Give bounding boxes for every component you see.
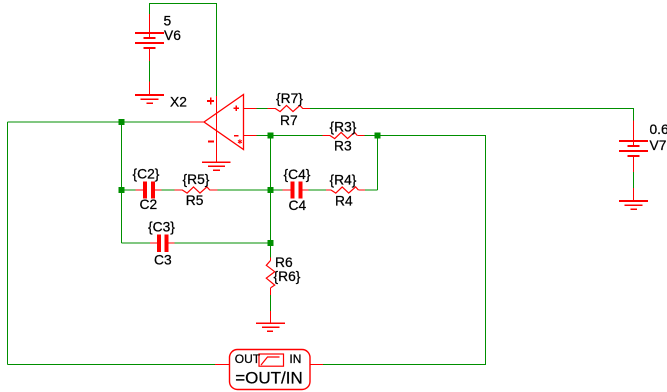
op-amp X2 triangle	[204, 95, 244, 150]
wire C3 row left	[122, 242, 151, 244]
capacitor C4	[283, 181, 309, 198]
svg-text:R6: R6	[275, 255, 293, 270]
wire C2 row left	[122, 189, 136, 191]
wire C4 to R4	[309, 189, 327, 191]
op-amp ground	[202, 162, 231, 170]
node junction C2 row right	[268, 187, 274, 193]
capacitor C3	[150, 234, 175, 252]
svg-text:{R4}: {R4}	[330, 173, 357, 188]
svg-text:{R5}: {R5}	[183, 172, 210, 187]
op-amp output lead	[190, 121, 204, 123]
wire C2 to R5	[161, 189, 174, 191]
svg-text:{R7}: {R7}	[276, 91, 303, 106]
wire plus input to R7	[257, 108, 268, 110]
svg-text:R3: R3	[334, 139, 352, 154]
wire top V6 to opamp supply	[150, 4, 217, 97]
wire minus input row	[257, 135, 323, 137]
resistor R3	[323, 132, 365, 138]
wire junction down to R4	[377, 136, 379, 191]
capacitor C2	[136, 181, 162, 198]
svg-text:V7: V7	[650, 138, 667, 153]
ground R6	[256, 311, 285, 331]
op-amp noninverting input lead	[244, 108, 257, 110]
svg-text:0.6: 0.6	[650, 122, 667, 137]
ground V6	[135, 82, 164, 104]
svg-text:IN: IN	[289, 352, 301, 366]
wire output row	[8, 121, 191, 123]
op-amp minus supply mark	[208, 141, 214, 143]
marker block OUT/IN	[215, 350, 323, 390]
resistor R6	[266, 258, 274, 295]
svg-text:OUT: OUT	[235, 352, 261, 366]
node junction minus input	[268, 133, 274, 139]
svg-text:R5: R5	[186, 193, 204, 208]
op-amp plus supply mark	[207, 98, 214, 105]
wire R4 to vertical	[365, 189, 378, 191]
op-amp output star mark	[238, 139, 242, 144]
wire junction to C4	[274, 189, 283, 191]
op-amp inner minus mark	[234, 135, 239, 137]
resistor R5	[175, 187, 218, 193]
voltage source V6	[135, 14, 164, 61]
svg-text:X2: X2	[170, 94, 187, 109]
svg-text:{C2}: {C2}	[133, 167, 160, 182]
wire bottom left	[8, 364, 216, 366]
wire vertical minus node down	[270, 136, 272, 258]
wire V7 to ground	[633, 172, 635, 188]
node junction C3 row right	[268, 240, 274, 246]
resistor R4	[326, 187, 365, 193]
svg-text:C2: C2	[140, 197, 158, 212]
svg-text:C4: C4	[289, 198, 307, 213]
svg-text:5: 5	[164, 14, 172, 29]
svg-text:C3: C3	[154, 252, 172, 267]
voltage source V7	[619, 121, 648, 173]
wire C3 to junction	[175, 242, 271, 244]
node junction R3 right	[375, 133, 381, 139]
wire left vertical	[7, 122, 9, 365]
wire R7 to V7	[310, 109, 633, 121]
op-amp supply line	[216, 96, 218, 162]
wire vertical from output junction down	[121, 122, 123, 243]
svg-text:{R6}: {R6}	[274, 269, 301, 284]
resistor R7	[267, 105, 310, 111]
svg-text:R7: R7	[280, 113, 298, 128]
op-amp inverting input lead	[244, 135, 257, 137]
wire R6 to ground	[270, 295, 272, 311]
node junction C2 row left	[119, 187, 125, 193]
op-amp inner plus mark	[233, 106, 239, 112]
wire R5 to junction	[217, 189, 267, 191]
svg-text:=OUT/IN: =OUT/IN	[235, 369, 303, 388]
wire R3 to junction and right loop	[323, 136, 486, 365]
node junction output	[119, 119, 125, 125]
svg-text:V6: V6	[164, 28, 181, 43]
svg-text:{C4}: {C4}	[284, 167, 311, 182]
svg-text:R4: R4	[335, 193, 353, 208]
wire V6 to ground	[149, 61, 151, 82]
svg-text:{R3}: {R3}	[330, 120, 357, 135]
ground V7	[619, 188, 648, 209]
svg-text:{C3}: {C3}	[148, 219, 175, 234]
